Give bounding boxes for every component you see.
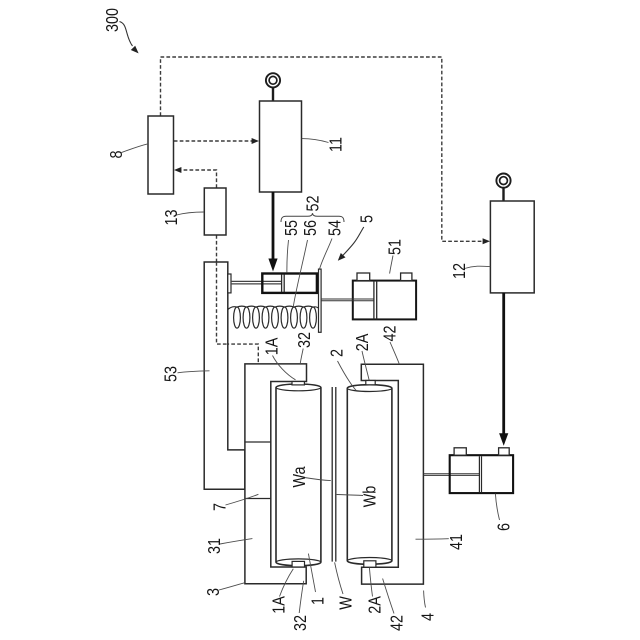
- svg-text:51: 51: [385, 239, 405, 255]
- roller Wa bottom cap arc: [276, 559, 321, 562]
- svg-text:5: 5: [357, 215, 377, 223]
- svg-text:11: 11: [326, 137, 346, 152]
- svg-text:8: 8: [106, 150, 126, 158]
- svg-text:2A: 2A: [365, 596, 385, 614]
- svg-text:2: 2: [327, 349, 347, 357]
- frame 4 right: [361, 364, 423, 584]
- box 51 tab right: [401, 273, 412, 281]
- svg-text:56: 56: [300, 220, 320, 236]
- svg-text:41: 41: [446, 534, 466, 550]
- leader 12: [465, 266, 491, 268]
- leader 7: [226, 494, 259, 505]
- box 6 tab right: [499, 448, 510, 455]
- tab on bar 53: [228, 274, 231, 293]
- leader 3: [219, 583, 245, 590]
- shaft 2A top: [366, 381, 375, 385]
- leader Wa: [305, 478, 331, 481]
- svg-text:13: 13: [161, 209, 181, 225]
- plate 54: [319, 269, 322, 332]
- svg-text:12: 12: [449, 263, 469, 279]
- svg-text:53: 53: [161, 366, 181, 382]
- stem of box 11: [272, 87, 274, 101]
- leader 1: [308, 554, 315, 592]
- svg-text:42: 42: [380, 325, 400, 341]
- wire dashed 8 to 11: [174, 140, 252, 142]
- leader W: [335, 562, 343, 594]
- wire dashed inside bar redraw: [217, 262, 228, 344]
- leader 31: [220, 539, 252, 544]
- svg-text:31: 31: [204, 538, 224, 554]
- svg-text:300: 300: [102, 8, 122, 32]
- svg-text:3: 3: [203, 588, 223, 596]
- leader 54: [320, 239, 332, 269]
- wire dashed 8-top to 12: [161, 57, 483, 241]
- svg-text:7: 7: [210, 503, 230, 511]
- leader 42 top: [390, 342, 399, 364]
- box 51: [353, 281, 416, 320]
- thick arrow 11 to cylinder: [272, 192, 275, 259]
- box 51 tab left: [357, 273, 370, 281]
- web strip W: [332, 387, 336, 562]
- shaft 2A bottom: [364, 561, 376, 567]
- leader 51: [390, 256, 393, 274]
- leader 11: [302, 139, 329, 143]
- svg-text:32: 32: [294, 332, 314, 348]
- svg-text:Wa: Wa: [289, 466, 309, 488]
- leader 56: [293, 240, 307, 307]
- frame 3 left: [245, 364, 307, 584]
- box 13: [204, 188, 226, 235]
- leader Wb: [337, 495, 363, 496]
- arrowhead into box 11: [252, 138, 259, 144]
- leader 1A bottom: [280, 569, 294, 597]
- leader 41: [416, 538, 449, 541]
- frame 3 divider line lower (part 7 bottom): [245, 498, 271, 500]
- box 11: [260, 101, 302, 192]
- leader 42 bottom: [383, 579, 394, 614]
- box 8: [148, 116, 174, 194]
- leader 32 bottom: [299, 581, 304, 613]
- piston rod 56: [231, 281, 282, 284]
- roller Wb top cap arc: [347, 388, 392, 391]
- arrowhead into box 8: [174, 167, 181, 173]
- frame 3 divider line upper (part 7 top): [245, 441, 271, 443]
- svg-text:52: 52: [303, 195, 323, 211]
- rod frame 4 to box 6: [423, 474, 479, 476]
- piston head: [282, 275, 285, 293]
- leader 2A top: [362, 351, 369, 380]
- svg-text:1: 1: [308, 597, 328, 605]
- svg-text:1A: 1A: [262, 338, 282, 356]
- leader 2A bottom: [369, 568, 372, 597]
- arrowhead into box 12: [483, 238, 490, 244]
- box 6: [450, 455, 513, 493]
- svg-text:32: 32: [290, 615, 310, 631]
- box 51 divider: [374, 281, 377, 320]
- svg-text:6: 6: [494, 523, 514, 531]
- spring 56 coils: [228, 306, 319, 328]
- leader 32 top: [300, 349, 303, 364]
- leader 300 arrow: [120, 22, 133, 47]
- leader 13: [177, 212, 205, 215]
- wire dashed 13 to 8: [181, 170, 217, 188]
- shaft 1A top: [292, 382, 304, 385]
- motor circle over box 12: [496, 174, 510, 188]
- shaft 1A bottom: [292, 561, 304, 567]
- leader 2 top: [338, 361, 357, 391]
- svg-text:Wb: Wb: [360, 486, 380, 508]
- stem of box 12: [502, 188, 504, 201]
- svg-text:42: 42: [387, 615, 407, 631]
- wire dashed 13 down to frame: [217, 235, 259, 441]
- motor circle over box 11: [266, 73, 280, 87]
- leader 6: [495, 494, 499, 520]
- roller Wb bottom cap arc: [347, 558, 392, 561]
- brace 52: [281, 213, 344, 222]
- box 6 tab left: [454, 448, 466, 455]
- leader 8: [122, 144, 149, 153]
- rod 54 to 51: [321, 299, 374, 301]
- roller Wa top cap arc: [276, 387, 321, 390]
- roller Wa: [276, 384, 321, 566]
- leader 4: [424, 591, 426, 608]
- svg-text:2A: 2A: [352, 334, 372, 352]
- svg-text:W: W: [336, 596, 356, 610]
- leader 55: [287, 240, 289, 273]
- thick arrow 12 to box 6: [502, 293, 505, 434]
- leader 53: [178, 371, 210, 373]
- cylinder 55: [262, 274, 317, 293]
- svg-text:4: 4: [418, 613, 438, 621]
- leader 1A top: [273, 356, 296, 380]
- svg-text:54: 54: [325, 220, 345, 236]
- bar 53: [204, 262, 245, 489]
- svg-text:55: 55: [281, 220, 301, 236]
- leader arrow 5: [343, 227, 364, 256]
- box 12: [490, 201, 534, 293]
- svg-text:1A: 1A: [269, 596, 289, 614]
- roller Wb: [347, 385, 392, 565]
- box 6 divider: [479, 456, 481, 492]
